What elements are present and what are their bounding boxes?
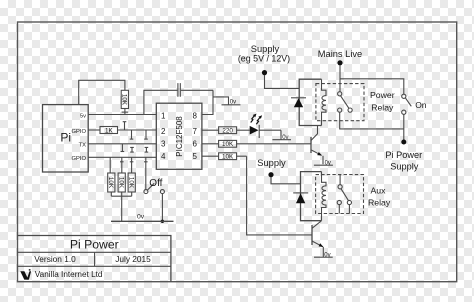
svg-text:Relay: Relay — [368, 197, 391, 207]
svg-text:5: 5 — [193, 152, 198, 161]
svg-text:0v: 0v — [230, 100, 236, 106]
svg-text:0v: 0v — [324, 252, 330, 258]
svg-text:July 2015: July 2015 — [115, 254, 151, 264]
svg-text:(eg 5V / 12V): (eg 5V / 12V) — [238, 54, 290, 64]
svg-text:10K: 10K — [222, 141, 234, 148]
svg-text:10K: 10K — [121, 94, 128, 106]
svg-text:Pi Power: Pi Power — [385, 150, 422, 160]
svg-text:Supply: Supply — [257, 158, 286, 168]
svg-text:10K: 10K — [222, 154, 234, 161]
svg-text:0v: 0v — [137, 214, 145, 221]
svg-text:1: 1 — [161, 111, 166, 120]
svg-text:7: 7 — [193, 127, 198, 136]
svg-text:Pi Power: Pi Power — [70, 238, 119, 252]
svg-text:Power: Power — [370, 90, 395, 100]
svg-text:10K: 10K — [118, 177, 125, 189]
svg-text:3: 3 — [161, 140, 166, 149]
svg-text:10K: 10K — [107, 177, 114, 189]
svg-text:5v: 5v — [80, 114, 86, 120]
svg-text:2: 2 — [161, 127, 166, 136]
svg-text:10K: 10K — [128, 177, 135, 189]
svg-text:GPIO: GPIO — [72, 156, 87, 162]
svg-text:Supply: Supply — [251, 44, 280, 54]
svg-text:Aux: Aux — [371, 186, 387, 196]
svg-text:4: 4 — [161, 152, 166, 161]
svg-text:220: 220 — [222, 128, 233, 135]
svg-text:Mains Live: Mains Live — [318, 49, 362, 59]
svg-text:6: 6 — [193, 140, 198, 149]
svg-text:Supply: Supply — [390, 161, 418, 171]
svg-text:Version 1.0: Version 1.0 — [34, 254, 76, 264]
svg-text:8: 8 — [193, 111, 198, 120]
svg-text:0v: 0v — [282, 135, 288, 141]
svg-text:0v: 0v — [325, 160, 331, 166]
svg-text:1K: 1K — [105, 127, 114, 134]
svg-text:On: On — [415, 100, 427, 110]
svg-text:TX: TX — [79, 142, 87, 148]
svg-text:Pi: Pi — [60, 131, 71, 145]
svg-text:PIC12F508: PIC12F508 — [175, 116, 184, 157]
svg-text:Off: Off — [149, 178, 162, 189]
svg-text:Relay: Relay — [371, 102, 394, 112]
svg-text:GPIO: GPIO — [72, 129, 87, 135]
svg-text:Vanilla Internet Ltd: Vanilla Internet Ltd — [35, 270, 103, 279]
